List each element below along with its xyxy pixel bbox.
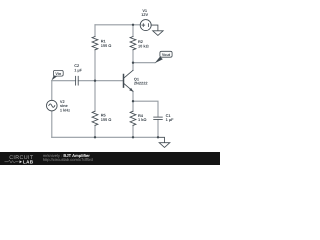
ground G1 top	[153, 31, 163, 36]
svg-text:1 kΩ: 1 kΩ	[138, 117, 147, 122]
node C1 bottom	[157, 136, 159, 138]
node base junction	[94, 80, 96, 82]
wire R1 bottom to base node	[94, 50, 96, 81]
svg-text:12V: 12V	[141, 12, 148, 17]
wire bottom rail	[52, 136, 158, 138]
svg-text:Vin: Vin	[55, 72, 62, 76]
footer bar	[0, 152, 220, 165]
source V2	[47, 100, 58, 111]
node collector/Vout	[132, 62, 134, 64]
node emitter junction	[132, 100, 134, 102]
wire C1 bottom lead	[157, 120, 159, 138]
wire Vin corner to C2	[52, 80, 76, 82]
resistor R4	[130, 111, 136, 125]
resistor R5	[92, 111, 98, 125]
wire R4 bottom lead	[132, 125, 134, 137]
wire top rail	[95, 24, 140, 26]
wire R5 bottom lead	[94, 125, 96, 137]
wire collector lead	[132, 63, 134, 71]
labels	[60, 8, 174, 122]
wire R1 top lead	[94, 25, 96, 37]
wire R2 top lead	[132, 25, 134, 37]
wire base wire	[78, 80, 123, 82]
svg-text:1 kHz: 1 kHz	[60, 108, 70, 113]
svg-text:LAB: LAB	[23, 160, 34, 165]
wire base node to R5 top	[94, 81, 96, 112]
node flag Vout	[155, 51, 172, 63]
wire ground stub bottom right	[158, 137, 165, 142]
wire V2 bottom lead	[51, 111, 53, 137]
svg-text:100 Ω: 100 Ω	[101, 43, 112, 48]
wire R2 bottom to collector node	[132, 50, 134, 63]
svg-text:100 Ω: 100 Ω	[101, 117, 112, 122]
svg-text:2N2222: 2N2222	[134, 81, 148, 86]
ground G2 bottom right	[159, 143, 170, 148]
wire V1 right stub	[151, 25, 158, 31]
wire emitter node to C1 top	[133, 101, 158, 117]
node flag Vin	[52, 70, 64, 80]
CircuitLab logo	[5, 155, 34, 165]
resistor R1	[92, 37, 98, 50]
wire V2 top lead	[51, 81, 53, 101]
svg-text:1 µF: 1 µF	[166, 117, 174, 122]
node junction dots	[94, 24, 159, 139]
wire emitter lead down	[132, 91, 134, 101]
wire Vout tap	[133, 62, 155, 64]
node R5 bottom	[94, 136, 96, 138]
node R4 bottom	[132, 136, 134, 138]
wire R4 top lead	[132, 101, 134, 111]
transistor Q1 2N2222	[124, 70, 134, 91]
svg-text:Vout: Vout	[162, 53, 171, 57]
node top rail / R2	[132, 24, 134, 26]
svg-text:10 kΩ: 10 kΩ	[138, 44, 149, 49]
svg-text:1 µF: 1 µF	[74, 67, 82, 72]
capacitor C1	[154, 117, 163, 119]
resistor R2	[130, 37, 136, 50]
source V1	[140, 20, 151, 31]
capacitor C2	[76, 76, 79, 85]
svg-text:http://circuitlab.com/c7df5rd: http://circuitlab.com/c7df5rd	[43, 157, 94, 162]
